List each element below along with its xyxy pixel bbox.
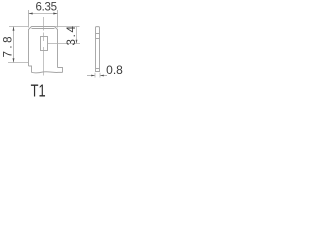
svg-text:T1: T1 xyxy=(31,80,46,100)
centerline of tab (vertical dash-dot) xyxy=(43,17,45,76)
dimension 7.8 (tab height) xyxy=(3,27,28,63)
side view strip outline xyxy=(96,27,100,72)
right base step xyxy=(58,68,63,73)
svg-text:0.8: 0.8 xyxy=(106,63,123,77)
battery cover surface line xyxy=(32,72,63,73)
svg-text:3.4: 3.4 xyxy=(66,25,78,45)
dimension 0.8 (thickness) xyxy=(87,63,123,77)
front view tab blade outline (chamfered top corners) xyxy=(29,27,58,68)
dimension 6.35 (tab width) xyxy=(29,2,58,28)
dimension 3.4 (hole position) xyxy=(48,25,81,45)
rectangular hole in tab xyxy=(41,37,48,51)
svg-text:7.8: 7.8 xyxy=(3,37,15,58)
left base step xyxy=(29,66,32,73)
tab tip fold line xyxy=(32,28,55,30)
svg-text:6.35: 6.35 xyxy=(36,2,58,14)
background xyxy=(0,0,125,100)
